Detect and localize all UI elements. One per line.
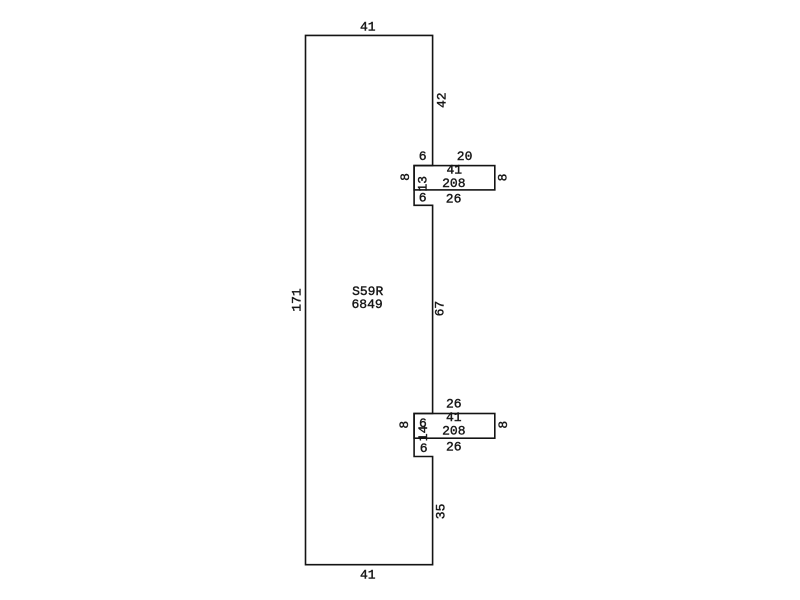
svg-text:14: 14 bbox=[416, 425, 431, 441]
svg-text:6: 6 bbox=[420, 441, 428, 456]
svg-text:8: 8 bbox=[496, 421, 511, 429]
svg-text:42: 42 bbox=[434, 92, 449, 108]
svg-text:35: 35 bbox=[434, 504, 449, 520]
svg-text:6: 6 bbox=[419, 190, 427, 205]
svg-text:8: 8 bbox=[398, 173, 413, 181]
svg-text:208: 208 bbox=[442, 423, 465, 438]
svg-text:41: 41 bbox=[360, 568, 376, 583]
svg-text:41: 41 bbox=[360, 19, 376, 34]
tab rect top bbox=[414, 166, 495, 190]
svg-text:171: 171 bbox=[289, 288, 304, 312]
svg-text:26: 26 bbox=[446, 191, 462, 206]
svg-text:208: 208 bbox=[442, 176, 465, 191]
svg-text:67: 67 bbox=[433, 301, 448, 317]
tab rect bottom bbox=[414, 414, 495, 439]
svg-text:6849: 6849 bbox=[351, 297, 382, 312]
panel outline S59R bbox=[306, 35, 433, 564]
svg-text:8: 8 bbox=[496, 174, 511, 182]
svg-text:6: 6 bbox=[419, 149, 427, 164]
svg-text:13: 13 bbox=[415, 176, 430, 192]
svg-text:26: 26 bbox=[446, 440, 462, 455]
svg-text:8: 8 bbox=[397, 421, 412, 429]
